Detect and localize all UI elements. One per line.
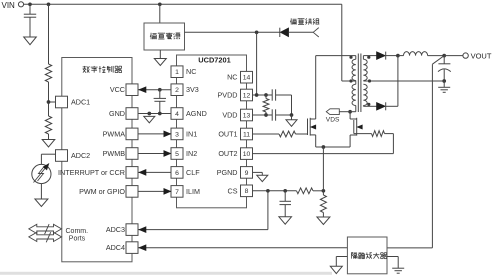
ground iso amp right earth xyxy=(387,256,398,258)
wire VDD row xyxy=(253,114,273,116)
svg-text:PWMA: PWMA xyxy=(103,129,126,138)
ground sensor xyxy=(35,199,48,207)
resistor current sense xyxy=(322,191,324,195)
wire PWMB to IN2 xyxy=(139,153,172,155)
ground iso amp left xyxy=(336,256,347,258)
svg-text:PVDD: PVDD xyxy=(218,91,238,100)
ground divider xyxy=(42,140,55,148)
wire to ADC1 node xyxy=(48,82,50,116)
wire CLF to INTERRUPT xyxy=(139,171,172,173)
thermistor sensor circle xyxy=(41,153,55,155)
wire CS row xyxy=(253,190,297,192)
wire PVDD row xyxy=(253,94,273,96)
pin 2 3V3 xyxy=(171,84,183,96)
ground GND arrow xyxy=(144,116,155,122)
bottom scan artifact band xyxy=(0,272,332,275)
ground VDD caps xyxy=(291,115,293,120)
wire OUT2 route xyxy=(253,153,394,155)
ground bias supply xyxy=(159,50,161,59)
pin PWM or GPIO xyxy=(126,186,138,198)
bias power supply box 偏置電源 xyxy=(159,4,161,23)
wire GND to AGND xyxy=(139,113,172,115)
wire Q1 source to bus xyxy=(315,135,317,147)
junction bias supply tap xyxy=(158,2,162,6)
svg-text:VDD: VDD xyxy=(222,111,237,120)
wire primary center tap xyxy=(342,80,356,82)
digital controller box xyxy=(62,58,132,262)
inductor output L xyxy=(398,55,404,57)
svg-text:CS: CS xyxy=(228,186,238,195)
svg-text:4: 4 xyxy=(175,111,179,118)
pin ADC2 xyxy=(56,150,68,162)
label 偏置绕组 xyxy=(290,18,292,24)
wire sensor to ground xyxy=(40,184,42,199)
wire D2 to rectifier node xyxy=(397,56,399,107)
pin 11 OUT1 xyxy=(241,128,253,140)
wire divider top xyxy=(48,4,50,64)
svg-text:8: 8 xyxy=(245,188,249,195)
svg-text:14: 14 xyxy=(243,75,251,82)
svg-text:1: 1 xyxy=(175,69,179,76)
junction CS filter cap xyxy=(283,189,287,193)
wire ADC4 feedback xyxy=(139,247,348,249)
ground PGND xyxy=(257,175,268,181)
wire OUT1 gate xyxy=(253,133,280,135)
wire primary bottom to Q2 xyxy=(355,106,357,112)
svg-text:3V3: 3V3 xyxy=(186,85,199,94)
wire divider bottom xyxy=(48,134,50,140)
capacitor PVDD bypass xyxy=(271,89,273,100)
svg-text:INTERRUPT or CCR: INTERRUPT or CCR xyxy=(58,168,125,177)
wire PWMA to IN1 xyxy=(139,133,172,135)
op-amp U1 UCD7201 body xyxy=(177,55,247,208)
diode D2 xyxy=(377,102,386,110)
transformer core xyxy=(357,54,359,113)
resistor divider lower xyxy=(45,116,51,134)
junction 3V3 cap xyxy=(158,88,162,92)
wire Q2 source xyxy=(349,135,351,147)
diode bias D3 xyxy=(279,28,281,37)
pin VCC (controller) xyxy=(126,84,138,96)
junction CS/ADC3 xyxy=(266,189,270,193)
node VOUT terminal xyxy=(444,55,463,57)
diode D1 xyxy=(377,52,386,60)
junction Q2 drain / VDS / primary xyxy=(348,110,352,114)
svg-text:PGND: PGND xyxy=(217,168,238,177)
svg-text:CLF: CLF xyxy=(186,168,200,177)
capacitor output xyxy=(443,56,445,64)
svg-text:7: 7 xyxy=(175,189,179,196)
pin ADC1 xyxy=(56,96,68,108)
junction output cap / return xyxy=(442,79,446,83)
svg-text:VIN: VIN xyxy=(2,1,16,10)
wire secondary top to D1 xyxy=(363,55,376,57)
ground current sense xyxy=(317,217,330,225)
capacitor CS filter xyxy=(284,191,286,202)
wire secondary bottom to D2 xyxy=(363,105,376,107)
pin PWMB xyxy=(126,148,138,160)
resistor CS filter xyxy=(297,188,314,194)
junction GND gnd-arrow xyxy=(147,112,151,116)
svg-text:13: 13 xyxy=(243,112,251,119)
pin GND (controller) xyxy=(126,108,138,120)
svg-text:PWMB: PWMB xyxy=(103,149,126,158)
svg-text:11: 11 xyxy=(243,131,250,138)
svg-text:NC: NC xyxy=(186,67,196,76)
svg-text:ADC3: ADC3 xyxy=(106,225,125,234)
junction bias to PVDD xyxy=(255,30,259,34)
pin 12 PVDD xyxy=(241,89,253,101)
svg-text:UCD7201: UCD7201 xyxy=(198,56,230,65)
svg-text:5: 5 xyxy=(175,151,179,158)
pin 9 PGND xyxy=(241,167,253,179)
transformer T1 primary top wire xyxy=(316,55,356,57)
junction input cap node xyxy=(28,2,32,6)
junction source bus to CS xyxy=(322,145,326,149)
svg-text:OUT1: OUT1 xyxy=(218,130,237,139)
capacitor 3V3 bypass xyxy=(159,90,161,99)
transistor Q2 xyxy=(353,120,355,134)
pin 8 CS xyxy=(241,185,253,197)
probe VDS xyxy=(326,109,339,115)
transistor Q1 xyxy=(307,119,309,136)
junction divider node xyxy=(47,2,51,6)
svg-text:GND: GND xyxy=(109,109,125,118)
node bias winding connector xyxy=(313,28,319,33)
svg-text:2: 2 xyxy=(175,87,179,94)
ground input cap xyxy=(24,37,37,45)
pin 13 VDD xyxy=(241,109,253,121)
svg-text:6: 6 xyxy=(175,170,179,177)
junction ADC1 node xyxy=(47,100,51,104)
wire secondary center tap return xyxy=(363,80,444,82)
pin 6 CLF xyxy=(171,167,183,179)
capacitor input C xyxy=(29,4,31,14)
junction CS sense node xyxy=(322,189,326,193)
junction rectifier output xyxy=(396,54,400,58)
resistor Q2 gate xyxy=(372,131,385,137)
svg-text:OUT2: OUT2 xyxy=(218,149,237,158)
resistor Q1 gate xyxy=(279,131,296,137)
junction VOUT node xyxy=(442,54,446,58)
svg-text:VDS: VDS xyxy=(326,117,340,124)
resistor PVDD-VDD filter xyxy=(263,99,269,113)
svg-text:ILIM: ILIM xyxy=(186,187,200,196)
svg-text:ADC4: ADC4 xyxy=(106,243,125,252)
svg-text:Ports: Ports xyxy=(69,236,86,243)
svg-text:NC: NC xyxy=(227,73,237,82)
transformer T1 primary winding xyxy=(352,59,356,80)
svg-text:10: 10 xyxy=(243,151,251,158)
pin ADC3 xyxy=(126,224,138,236)
pin 7 ILIM xyxy=(171,186,183,198)
svg-text:VCC: VCC xyxy=(110,85,125,94)
wire Q1 drain xyxy=(315,56,317,119)
pin 5 IN2 xyxy=(171,148,183,160)
ground CS cap xyxy=(279,217,292,224)
svg-text:ADC1: ADC1 xyxy=(71,98,90,107)
svg-text:Comm.: Comm. xyxy=(66,228,89,235)
capacitor VDD bypass xyxy=(271,109,273,120)
pin ADC4 xyxy=(126,242,138,254)
svg-text:IN2: IN2 xyxy=(186,149,197,158)
svg-text:9: 9 xyxy=(245,170,249,177)
pin 3 IN1 xyxy=(171,128,183,140)
wire PGND ground xyxy=(253,171,263,173)
svg-text:PWM or GPIO: PWM or GPIO xyxy=(79,187,125,196)
Comm ports bus arrows xyxy=(29,224,62,233)
wire VIN top rail xyxy=(24,3,342,5)
svg-text:IN1: IN1 xyxy=(186,129,197,138)
svg-text:AGND: AGND xyxy=(186,109,207,118)
pin 1 NC xyxy=(171,66,183,78)
transformer T1 secondary winding xyxy=(362,56,364,60)
ground output earth xyxy=(443,81,445,87)
wire bus to CS node xyxy=(322,147,324,191)
pin INTERRUPT or CCR xyxy=(126,167,138,179)
wire ADC3 sense xyxy=(139,229,268,231)
svg-text:3: 3 xyxy=(175,131,179,138)
pin 14 NC xyxy=(241,71,253,83)
pin PWMA xyxy=(126,128,138,140)
wire VCC to 3V3 xyxy=(139,89,172,91)
pin 10 OUT2 xyxy=(241,148,253,160)
wire bias output xyxy=(185,31,280,33)
label 数字控制器 xyxy=(83,66,86,68)
wire PWM/GPIO to ILIM xyxy=(139,190,172,192)
isolation amplifier box 隔離放大器 xyxy=(347,237,387,274)
svg-text:VOUT: VOUT xyxy=(471,51,492,60)
resistor divider upper xyxy=(45,64,51,82)
wire Q2 drain xyxy=(349,112,351,119)
svg-text:ADC2: ADC2 xyxy=(71,151,90,160)
wire VOUT feedback sense xyxy=(432,56,444,65)
junction VDD gnd xyxy=(290,113,294,117)
svg-text:12: 12 xyxy=(243,92,251,99)
pin 4 AGND xyxy=(171,108,183,120)
